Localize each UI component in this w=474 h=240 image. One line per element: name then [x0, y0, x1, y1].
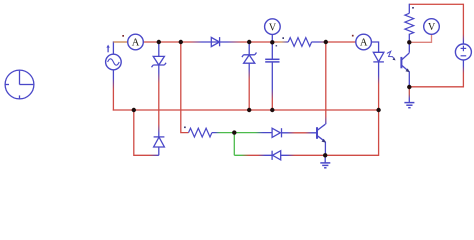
svg-text:A: A: [132, 38, 140, 49]
svg-text:V: V: [428, 22, 436, 33]
svg-text:A: A: [360, 38, 368, 49]
svg-text:V: V: [269, 22, 277, 33]
